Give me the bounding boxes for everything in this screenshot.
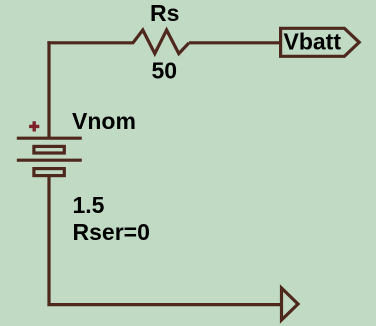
- wire: top-right horizontal segment: [189, 41, 281, 44]
- value 50: [152, 57, 178, 83]
- svg-text:1.5: 1.5: [73, 192, 105, 218]
- value Rser=0: [73, 219, 150, 245]
- net flag Vbatt (pentagon outline): [281, 28, 360, 56]
- wire: left vertical segment: [47, 41, 50, 138]
- voltage source Vnom: first short plate (hollow rectangle): [34, 146, 64, 153]
- svg-text:Rser=0: Rser=0: [73, 219, 150, 245]
- svg-text:Vbatt: Vbatt: [284, 29, 342, 55]
- label Rs: [150, 0, 179, 26]
- svg-text:Vnom: Vnom: [72, 108, 136, 134]
- voltage source Vnom: plus sign: [29, 121, 39, 131]
- net label Vbatt text: [284, 29, 342, 55]
- value 1.5: [73, 192, 105, 218]
- wire: bottom horizontal segment: [47, 303, 281, 306]
- wire: bottom vertical segment: [47, 177, 50, 305]
- wire: top-left horizontal segment: [47, 41, 134, 44]
- svg-text:Rs: Rs: [150, 0, 179, 26]
- resistor Rs (zigzag body): [133, 30, 189, 54]
- voltage source Vnom: top battery plate: [17, 137, 82, 140]
- net flag (unnamed) bottom right triangle: [282, 288, 299, 320]
- label Vnom: [72, 108, 136, 134]
- voltage source Vnom: second short plate (hollow rectangle): [34, 169, 64, 176]
- voltage source Vnom: middle battery plate: [17, 159, 82, 162]
- svg-text:50: 50: [152, 57, 178, 83]
